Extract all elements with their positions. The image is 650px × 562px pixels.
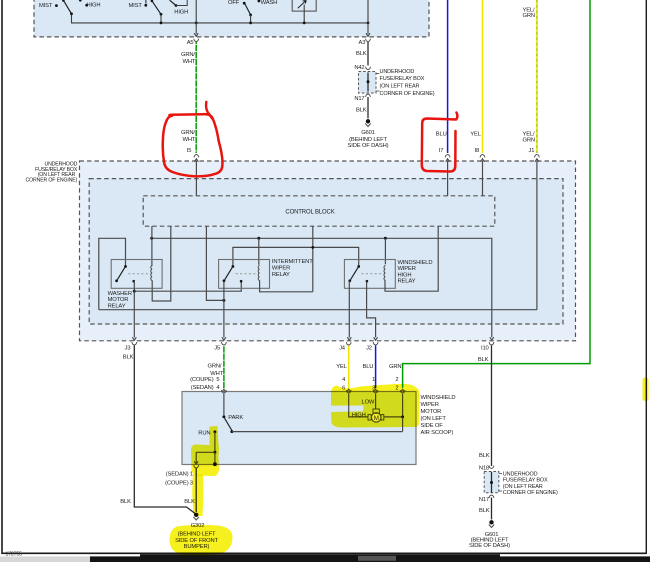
svg-text:INTERMITTENT: INTERMITTENT: [272, 259, 313, 265]
wire CB pin x206 down: [206, 226, 224, 300]
svg-text:1: 1: [372, 377, 375, 383]
relay intermittent wiper: [219, 260, 270, 289]
wire inside N42 box: [367, 73, 369, 92]
wire washer coil bottom to CB: [152, 226, 171, 301]
outer fuse/relay dashed box: [80, 161, 576, 341]
ground G601 (upper): [366, 119, 370, 123]
svg-text:N17: N17: [354, 96, 364, 102]
park switch arm: [225, 418, 232, 430]
contact dot MIST 1: [55, 4, 58, 7]
connector A3: [366, 39, 371, 42]
contact dot HIGH 2: [175, 4, 178, 7]
motor brush left: [368, 415, 371, 420]
svg-text:GRN: GRN: [523, 137, 535, 143]
svg-text:AIR SCOOP): AIR SCOOP): [421, 430, 454, 436]
svg-text:WIPER: WIPER: [398, 266, 416, 272]
relay washer motor: [111, 260, 162, 289]
arrow A5: [194, 33, 198, 36]
junction dot x313 feed: [311, 246, 314, 249]
junction dot bus x151: [150, 237, 153, 240]
inline connector box N18: [484, 472, 499, 493]
wire J4 down: [348, 281, 350, 338]
washer pump box: [292, 0, 316, 11]
inner fuse/relay dashed box: [89, 179, 563, 324]
svg-text:WIPER: WIPER: [421, 402, 439, 408]
arrow J4 down: [347, 337, 351, 340]
svg-text:(SEDAN): (SEDAN): [166, 471, 189, 477]
contact dot arm 2: [160, 13, 163, 16]
control block dashed box: [143, 196, 495, 226]
svg-text:I7: I7: [439, 148, 444, 154]
leader N42 top: [376, 73, 380, 75]
svg-text:HIGH: HIGH: [87, 3, 101, 9]
wire GRN/WHT A5 to I5: [195, 42, 197, 153]
connector motor pin2: [400, 390, 405, 393]
svg-text:(COUPE): (COUPE): [165, 480, 189, 486]
svg-text:GRN/: GRN/: [208, 364, 222, 370]
svg-text:J1: J1: [529, 148, 535, 154]
wire YEL/GRN from top: [536, 0, 538, 153]
svg-text:BLU: BLU: [436, 132, 447, 138]
wire inside N18 box: [491, 472, 493, 493]
motor brush right: [381, 415, 384, 420]
leader N18 top: [499, 473, 502, 475]
svg-text:WIPER: WIPER: [272, 266, 290, 272]
svg-text:YEL: YEL: [336, 364, 347, 370]
junction dot motor right: [401, 415, 404, 418]
highlight right edge: [643, 378, 649, 402]
wire BLU J2 to motor: [375, 346, 377, 389]
svg-text:N42: N42: [354, 65, 364, 71]
wiper motor box: [182, 392, 416, 465]
connector I5: [194, 155, 199, 158]
svg-text:N17: N17: [479, 497, 489, 503]
svg-text:RUN: RUN: [198, 431, 210, 437]
svg-text:I10: I10: [481, 346, 489, 352]
highlight G302 text: [170, 525, 233, 556]
arrow into box I7: [446, 159, 450, 162]
svg-text:WHT: WHT: [183, 59, 196, 65]
arrow A3: [366, 33, 370, 36]
svg-text:MOTOR: MOTOR: [108, 297, 129, 303]
connector N42: [366, 67, 371, 70]
wire BLK I10 down: [491, 346, 493, 467]
svg-text:WINDSHIELD: WINDSHIELD: [421, 395, 456, 401]
wire switch top feed: [233, 247, 359, 266]
wire J5 down: [223, 281, 225, 337]
junction dot pump bus: [303, 22, 306, 25]
svg-text:UNDERHOOD: UNDERHOOD: [503, 471, 538, 477]
motor bracket top: [373, 409, 379, 413]
connector motor gnd: [194, 465, 199, 468]
arrow motor gnd pin: [194, 461, 198, 464]
svg-text:SIDE OF DASH): SIDE OF DASH): [348, 143, 389, 149]
wire CB pin to washer coil: [151, 226, 153, 266]
svg-text:J2: J2: [366, 345, 372, 351]
svg-text:3: 3: [190, 480, 193, 486]
contact dot PARK: [222, 415, 225, 418]
connector motor pin3: [373, 390, 378, 393]
wire int coil bottom to CB: [260, 280, 313, 291]
connector I10: [489, 342, 494, 345]
junction dot OFF bus: [249, 22, 252, 25]
wire pump to bus: [303, 5, 305, 23]
svg-text:A3: A3: [359, 40, 366, 46]
svg-text:J4: J4: [339, 345, 346, 351]
wire to motor gnd pin: [195, 452, 197, 463]
svg-text:BLK: BLK: [479, 453, 490, 459]
svg-text:RELAY: RELAY: [398, 279, 416, 285]
wire J1 to lower bus: [536, 161, 538, 310]
right page border: [645, 0, 647, 554]
svg-text:J3: J3: [125, 345, 131, 351]
connector N17 (upper): [366, 94, 371, 97]
connector J5: [222, 342, 227, 345]
svg-text:GRN: GRN: [523, 13, 535, 19]
wire pin6 to HIGH: [349, 394, 368, 417]
svg-text:HIGH: HIGH: [398, 272, 412, 278]
contact dot OFF: [243, 2, 246, 5]
svg-text:(ON LEFT REAR: (ON LEFT REAR: [503, 484, 543, 490]
switch arm 1: [64, 1, 72, 14]
ground G601 lower: [489, 520, 493, 524]
wire run node left: [196, 451, 215, 453]
wire armOFF to bus: [250, 15, 252, 23]
contact dot HIGH 1: [85, 4, 88, 7]
wire YEL J4 to motor: [348, 346, 350, 389]
svg-text:PARK: PARK: [228, 415, 243, 421]
case ground dot: [213, 462, 217, 466]
junction dot A5 bus: [195, 22, 198, 25]
highlight motor area: [331, 384, 420, 428]
wire run node to case: [214, 452, 216, 463]
wire upper bus to I10: [152, 238, 492, 337]
wire RUN down: [214, 432, 216, 452]
ground G302: [194, 513, 198, 517]
svg-text:WINDSHIELD: WINDSHIELD: [398, 260, 433, 266]
switch arm 2: [152, 1, 161, 14]
svg-text:CORNER OF ENGINE): CORNER OF ENGINE): [26, 178, 78, 184]
svg-text:BLK: BLK: [123, 355, 134, 361]
wire BLU from top: [447, 0, 449, 153]
junction dot J5 node: [222, 299, 225, 302]
svg-text:J5: J5: [214, 345, 220, 351]
connector N18: [489, 466, 494, 469]
svg-text:I8: I8: [475, 148, 480, 154]
wire YEL from top: [482, 0, 484, 153]
red circle around I5: [163, 114, 223, 176]
wire lower bus: [99, 309, 537, 311]
contact dot RUN: [213, 430, 216, 433]
connector motor pin6: [346, 390, 351, 393]
wire A3 vertical: [367, 0, 369, 34]
svg-text:CORNER OF ENGINE): CORNER OF ENGINE): [380, 91, 435, 97]
wire washer switch loop: [99, 238, 126, 309]
wire motor gnd to G302: [195, 468, 197, 513]
wire J2 down: [367, 281, 376, 337]
contact dot WASH: [258, 0, 261, 2]
svg-text:(BEHIND LEFT: (BEHIND LEFT: [349, 137, 387, 143]
connector I8: [480, 155, 485, 158]
motor M circle: [372, 413, 381, 422]
wiper/washer switch dashed box: [34, 0, 429, 37]
svg-text:BLK: BLK: [356, 51, 367, 57]
svg-text:BLK: BLK: [478, 357, 489, 363]
wire J3 down: [133, 291, 135, 337]
wire N17 to G601: [367, 97, 369, 119]
washer pump arrow: [298, 0, 306, 8]
connector J1: [535, 155, 540, 158]
wire washer pin to int pin: [134, 282, 241, 292]
wire A5 vertical: [195, 0, 197, 34]
wire pivot to motor node: [232, 431, 403, 433]
svg-text:BLK: BLK: [120, 499, 131, 505]
highlight G302 wire: [192, 474, 203, 516]
junction dot arm2 bus: [160, 22, 163, 25]
svg-text:172755: 172755: [6, 551, 23, 557]
svg-text:GRN/: GRN/: [181, 130, 195, 136]
svg-text:RELAY: RELAY: [272, 272, 290, 278]
svg-text:(COUPE): (COUPE): [190, 377, 214, 383]
bottom scrollbar black bar: [90, 556, 650, 562]
switch bus wire: [72, 14, 369, 23]
contact dot arm 1: [70, 12, 73, 15]
wire I5 to control block: [195, 161, 197, 197]
junction dot washer pin: [133, 290, 136, 293]
wire BLK J3 to G302: [134, 346, 196, 515]
svg-text:5: 5: [216, 377, 219, 383]
switch arm OFF: [245, 4, 251, 15]
connector A5: [194, 39, 199, 42]
svg-text:N18: N18: [479, 466, 489, 472]
svg-text:BLK: BLK: [356, 107, 367, 113]
junction dot A3 bus: [367, 22, 370, 25]
contact dot MIST 2: [144, 4, 147, 7]
relay windshield wiper high: [344, 260, 395, 289]
svg-text:RELAY: RELAY: [108, 303, 126, 309]
svg-text:I5: I5: [187, 148, 192, 154]
connector J4: [346, 342, 351, 345]
arrow J2 down: [374, 337, 378, 340]
svg-text:(SEDAN): (SEDAN): [191, 385, 214, 391]
connector J2: [373, 342, 378, 345]
svg-text:2: 2: [395, 377, 398, 383]
svg-text:WASHER: WASHER: [108, 291, 132, 297]
arrow into box I5: [194, 159, 198, 162]
wire CB pin x313 down: [312, 226, 314, 292]
wire N17 to G601 lower: [491, 498, 493, 520]
svg-text:SIDE OF: SIDE OF: [421, 423, 444, 429]
bottom bar gray patch: [358, 556, 396, 561]
connector motor pin4: [222, 390, 227, 393]
junction dot N42 box: [367, 80, 370, 83]
arrow J3 down: [132, 337, 136, 340]
wire arm2 to bus: [160, 14, 162, 23]
svg-text:GRN/: GRN/: [181, 52, 195, 58]
wire pin4 to PARK: [223, 393, 225, 416]
bottom page border: [2, 552, 646, 554]
svg-text:MIST: MIST: [129, 3, 143, 9]
highlight run switch: [191, 426, 219, 476]
svg-text:A5: A5: [187, 40, 194, 46]
svg-text:WHT: WHT: [183, 137, 196, 143]
leader N18 bottom: [499, 490, 502, 492]
svg-text:MIST: MIST: [39, 3, 53, 9]
wire GRN from top to motor: [403, 0, 590, 388]
svg-text:(ON LEFT: (ON LEFT: [421, 416, 447, 422]
left page border: [1, 0, 3, 554]
wire I8 to control block: [482, 161, 484, 197]
connector N17 (lower): [489, 495, 494, 498]
wire pin2 to motor right: [384, 394, 403, 417]
junction dot park pivot: [230, 430, 233, 433]
bottom bar merged segment: [140, 554, 500, 562]
svg-text:CORNER OF ENGINE): CORNER OF ENGINE): [503, 490, 558, 496]
wire pin3 to motor top: [375, 394, 377, 409]
wire I7 to control block: [447, 161, 449, 197]
red tick above I5 circle: [206, 102, 212, 118]
switch arm HIGH2: [170, 0, 176, 5]
svg-text:FUSE/RELAY BOX: FUSE/RELAY BOX: [380, 76, 425, 82]
wire washer pin down: [133, 281, 135, 291]
wire wind coil bottom to CB: [385, 226, 438, 291]
bottom scrollbar track gray: [0, 556, 90, 562]
svg-text:BLU: BLU: [363, 364, 374, 370]
junction dot N18 box: [490, 481, 493, 484]
connector I7: [445, 155, 450, 158]
svg-text:WASH: WASH: [261, 0, 278, 6]
arrow I10 down: [490, 337, 494, 340]
svg-text:GRN: GRN: [389, 364, 401, 370]
svg-text:YEL: YEL: [470, 132, 481, 138]
wire BLK A3 to N42: [367, 42, 369, 66]
arrow J5 down: [222, 337, 226, 340]
svg-text:SIDE OF DASH): SIDE OF DASH): [469, 543, 510, 549]
connector J3: [132, 342, 137, 345]
svg-text:OFF: OFF: [228, 0, 240, 6]
wire motor node down: [402, 417, 404, 432]
arrow into box J1: [535, 159, 539, 162]
wire wind coil top: [384, 238, 386, 264]
leader N42 bottom: [376, 90, 380, 92]
junction dot run node: [213, 451, 216, 454]
wire GRN/WHT J5 to motor: [223, 346, 225, 389]
svg-text:(ON LEFT REAR: (ON LEFT REAR: [380, 84, 420, 90]
red box around I7: [422, 113, 458, 172]
junction dot bus x385: [384, 237, 387, 240]
svg-text:BLK: BLK: [479, 508, 490, 514]
wire int coil top: [258, 238, 260, 264]
junction dot bus x258: [257, 237, 260, 240]
svg-text:UNDERHOOD: UNDERHOOD: [380, 69, 415, 75]
svg-text:CONTROL BLOCK: CONTROL BLOCK: [285, 210, 334, 216]
inline connector box N42: [359, 72, 377, 94]
contact dot arm OFF: [249, 14, 252, 17]
svg-text:HIGH: HIGH: [174, 10, 188, 16]
svg-text:MOTOR: MOTOR: [421, 409, 442, 415]
svg-text:FUSE/RELAY BOX: FUSE/RELAY BOX: [503, 478, 548, 484]
arrow into box I8: [481, 159, 485, 162]
svg-text:G601: G601: [361, 130, 375, 136]
